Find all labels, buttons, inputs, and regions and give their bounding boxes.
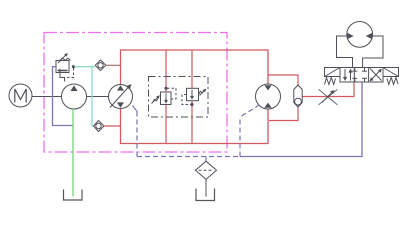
wire: pressure main line P2 top to motor M2 (red) [121,50,269,84]
wire: suction line (green) [72,109,74,197]
wire: P2 case drain vertical (blue dashed) [136,112,138,157]
directional valve U1 (4/3 solenoid) [325,68,399,85]
wire: relief valve tank line (purple) [53,67,73,126]
tank T1 [64,190,83,201]
pump P1 (fixed displacement) [62,84,87,109]
wire: motor M3 right loop [363,36,383,68]
filter F1 [196,161,217,179]
wire: V2 return (red) [191,101,193,144]
wire: feed to valve V2 (red) [191,50,193,88]
wire: boost line vertical (cyan) [92,67,94,126]
drain (case) of P2, solid stub [133,106,138,112]
shaft M1 to P1 [32,96,62,98]
wire: upper branch to CV3 (red) [268,75,298,85]
wire: drain manifold horizontal (blue dashed) [137,156,238,158]
check valve CV2 (lower) [94,121,105,132]
wire: line to directional valve P (red) [302,82,354,97]
wire: filter to tank T2 [205,179,207,196]
right cell crossed arrows [370,71,380,82]
relief valve V0 [56,53,74,82]
wire: V1 return (red) [165,105,167,144]
solenoid left [325,68,341,77]
enclosure: pump unit boundary (magenta dash-dot box) [44,33,227,153]
wire: boost line horizontal (cyan) [75,66,96,68]
center cell blocked ports [354,68,356,72]
hydraulic motor M2 [256,84,281,109]
junction dot above V1 [164,87,167,90]
tank T2 [196,189,215,201]
wire: drain manifold (blue dashed) [239,117,241,157]
check valve CV1 (upper) [95,60,106,71]
drain of motor M2 (dashed diagonal) [240,105,260,117]
junction dot below V2 [190,103,193,106]
pressure valve V1 [152,88,177,104]
wire: return bottom line (red) [121,109,269,144]
wire: CV2 to main line (red) [104,125,121,127]
hydraulic motor M3 (bidirectional) [347,22,373,48]
wire: CV3 bottom branch (red) [269,107,298,121]
valve block boundary (black dash-dot box) [149,77,209,118]
wire: CV1 to main line [106,64,121,66]
pump P2 (variable displacement) [109,84,133,109]
wire: motor M3 left loop [337,36,353,68]
ball check valve CV3 [294,85,302,107]
shaft P1 to P2 [87,96,109,98]
solenoid right [383,68,399,77]
pressure valve V2 [182,88,206,104]
junction dot at relief valve outlet [72,65,75,68]
electric motor M1 [9,84,32,107]
wire: filter inlet stub (blue) [205,157,207,162]
throttle valve (adjustable) [319,89,338,105]
wire: directional valve T line (blue solid) [240,82,362,157]
wire: feed to valve V1 (red) [165,50,167,92]
left cell arrows [344,69,346,79]
